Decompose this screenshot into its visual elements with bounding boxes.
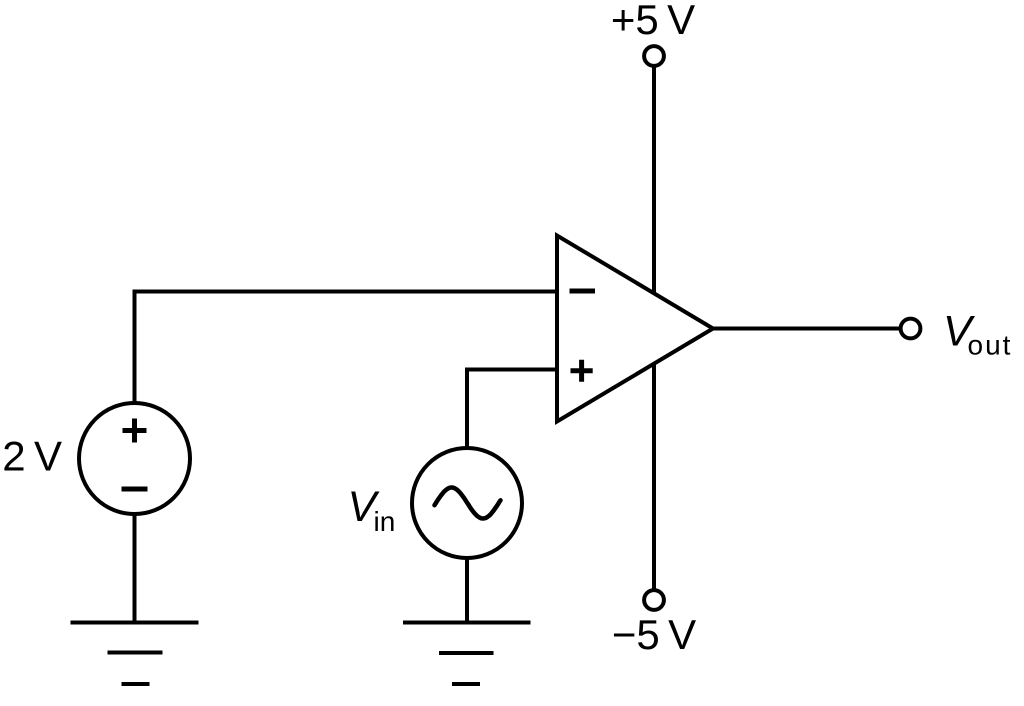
V1 plus marker <box>123 419 147 443</box>
wire: op-amp bottom edge to V- supply <box>652 363 656 591</box>
svg-text:+5 V: +5 V <box>611 0 695 43</box>
ground (left) <box>71 623 199 685</box>
source Vin: AC source <box>412 448 522 558</box>
wire: V1 to ground <box>133 514 137 623</box>
Vin sine wave <box>435 488 501 519</box>
wire: inverting input <box>135 292 558 404</box>
op-amp U1 <box>557 236 713 422</box>
V1 minus marker <box>122 487 148 492</box>
source V1: 2 V DC source <box>79 403 190 514</box>
Vout terminal <box>901 319 921 339</box>
+5 V terminal <box>644 46 664 66</box>
ground (right) <box>403 623 531 685</box>
op-amp non-inverting input marker (plus) <box>571 360 593 382</box>
wire: Vin to ground <box>465 558 469 623</box>
svg-text:−5 V: −5 V <box>612 611 696 658</box>
svg-text:out: out <box>968 330 1013 361</box>
wire: non-inverting input <box>467 370 557 449</box>
op-amp inverting input marker (minus) <box>570 289 596 294</box>
svg-text:2 V: 2 V <box>2 432 62 479</box>
-5 V terminal <box>644 590 664 610</box>
wire: op-amp output <box>713 327 900 331</box>
wire: V+ supply to op-amp top edge <box>652 65 656 295</box>
svg-text:in: in <box>374 506 396 537</box>
